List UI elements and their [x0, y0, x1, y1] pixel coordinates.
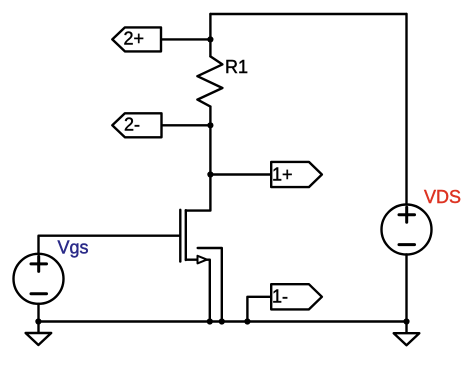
- svg-text:1-: 1-: [272, 287, 288, 307]
- wire resistor top lead: [209, 39, 211, 56]
- wire bottom rail: [38, 320, 406, 322]
- svg-text:1+: 1+: [272, 164, 293, 184]
- transistor M1 bulk lead: [198, 248, 222, 322]
- node dot top (2+): [207, 36, 213, 42]
- node dot 1+: [207, 171, 213, 177]
- svg-text:VDS: VDS: [424, 187, 461, 207]
- node dot rail 1-: [244, 318, 250, 324]
- svg-text:2+: 2+: [124, 29, 145, 49]
- wire gate lead from Vgs: [39, 236, 181, 254]
- flag 1+: [271, 162, 322, 187]
- transistor M1 gate bar: [179, 210, 181, 262]
- node dot rail Vgs: [35, 318, 41, 324]
- voltage source Vgs circle: [14, 254, 64, 304]
- voltage source VDS circle: [382, 205, 432, 255]
- voltage source VDS plus: [399, 213, 415, 216]
- wire top rail: [210, 13, 406, 15]
- transistor M1 source lead: [186, 260, 210, 322]
- wire resistor bottom lead: [209, 107, 211, 126]
- flag 2-: [112, 113, 161, 137]
- svg-text:R1: R1: [225, 57, 248, 77]
- ground right: [394, 333, 420, 345]
- node dot rail bulk: [219, 318, 225, 324]
- resistor R1: [197, 56, 222, 106]
- wire flag2plus to node: [161, 38, 210, 40]
- ground left: [26, 333, 52, 345]
- wire flag2minus to node: [162, 124, 211, 126]
- wire node to flag1plus: [210, 173, 271, 175]
- transistor M1 source arrow: [198, 256, 207, 264]
- wire right vertical upper: [405, 14, 407, 205]
- voltage source VDS minus: [399, 243, 415, 246]
- flag 2+: [112, 27, 161, 51]
- wire drain lead: [186, 175, 211, 211]
- node dot 2-: [207, 122, 213, 128]
- flag 1-: [271, 284, 322, 309]
- wire flag1minus to rail: [247, 297, 271, 322]
- wire VDS bottom lead: [405, 255, 407, 334]
- wire Vgs bottom lead: [37, 304, 39, 333]
- transistor M1 channel bar: [185, 210, 187, 260]
- wire main vertical mid: [209, 125, 211, 174]
- node dot rail source: [207, 318, 213, 324]
- node dot rail VDS: [403, 318, 409, 324]
- svg-text:2-: 2-: [124, 115, 140, 135]
- wire main vertical top: [209, 14, 211, 39]
- voltage source Vgs plus: [31, 262, 47, 265]
- svg-text:Vgs: Vgs: [58, 237, 89, 257]
- voltage source Vgs minus: [31, 292, 47, 295]
